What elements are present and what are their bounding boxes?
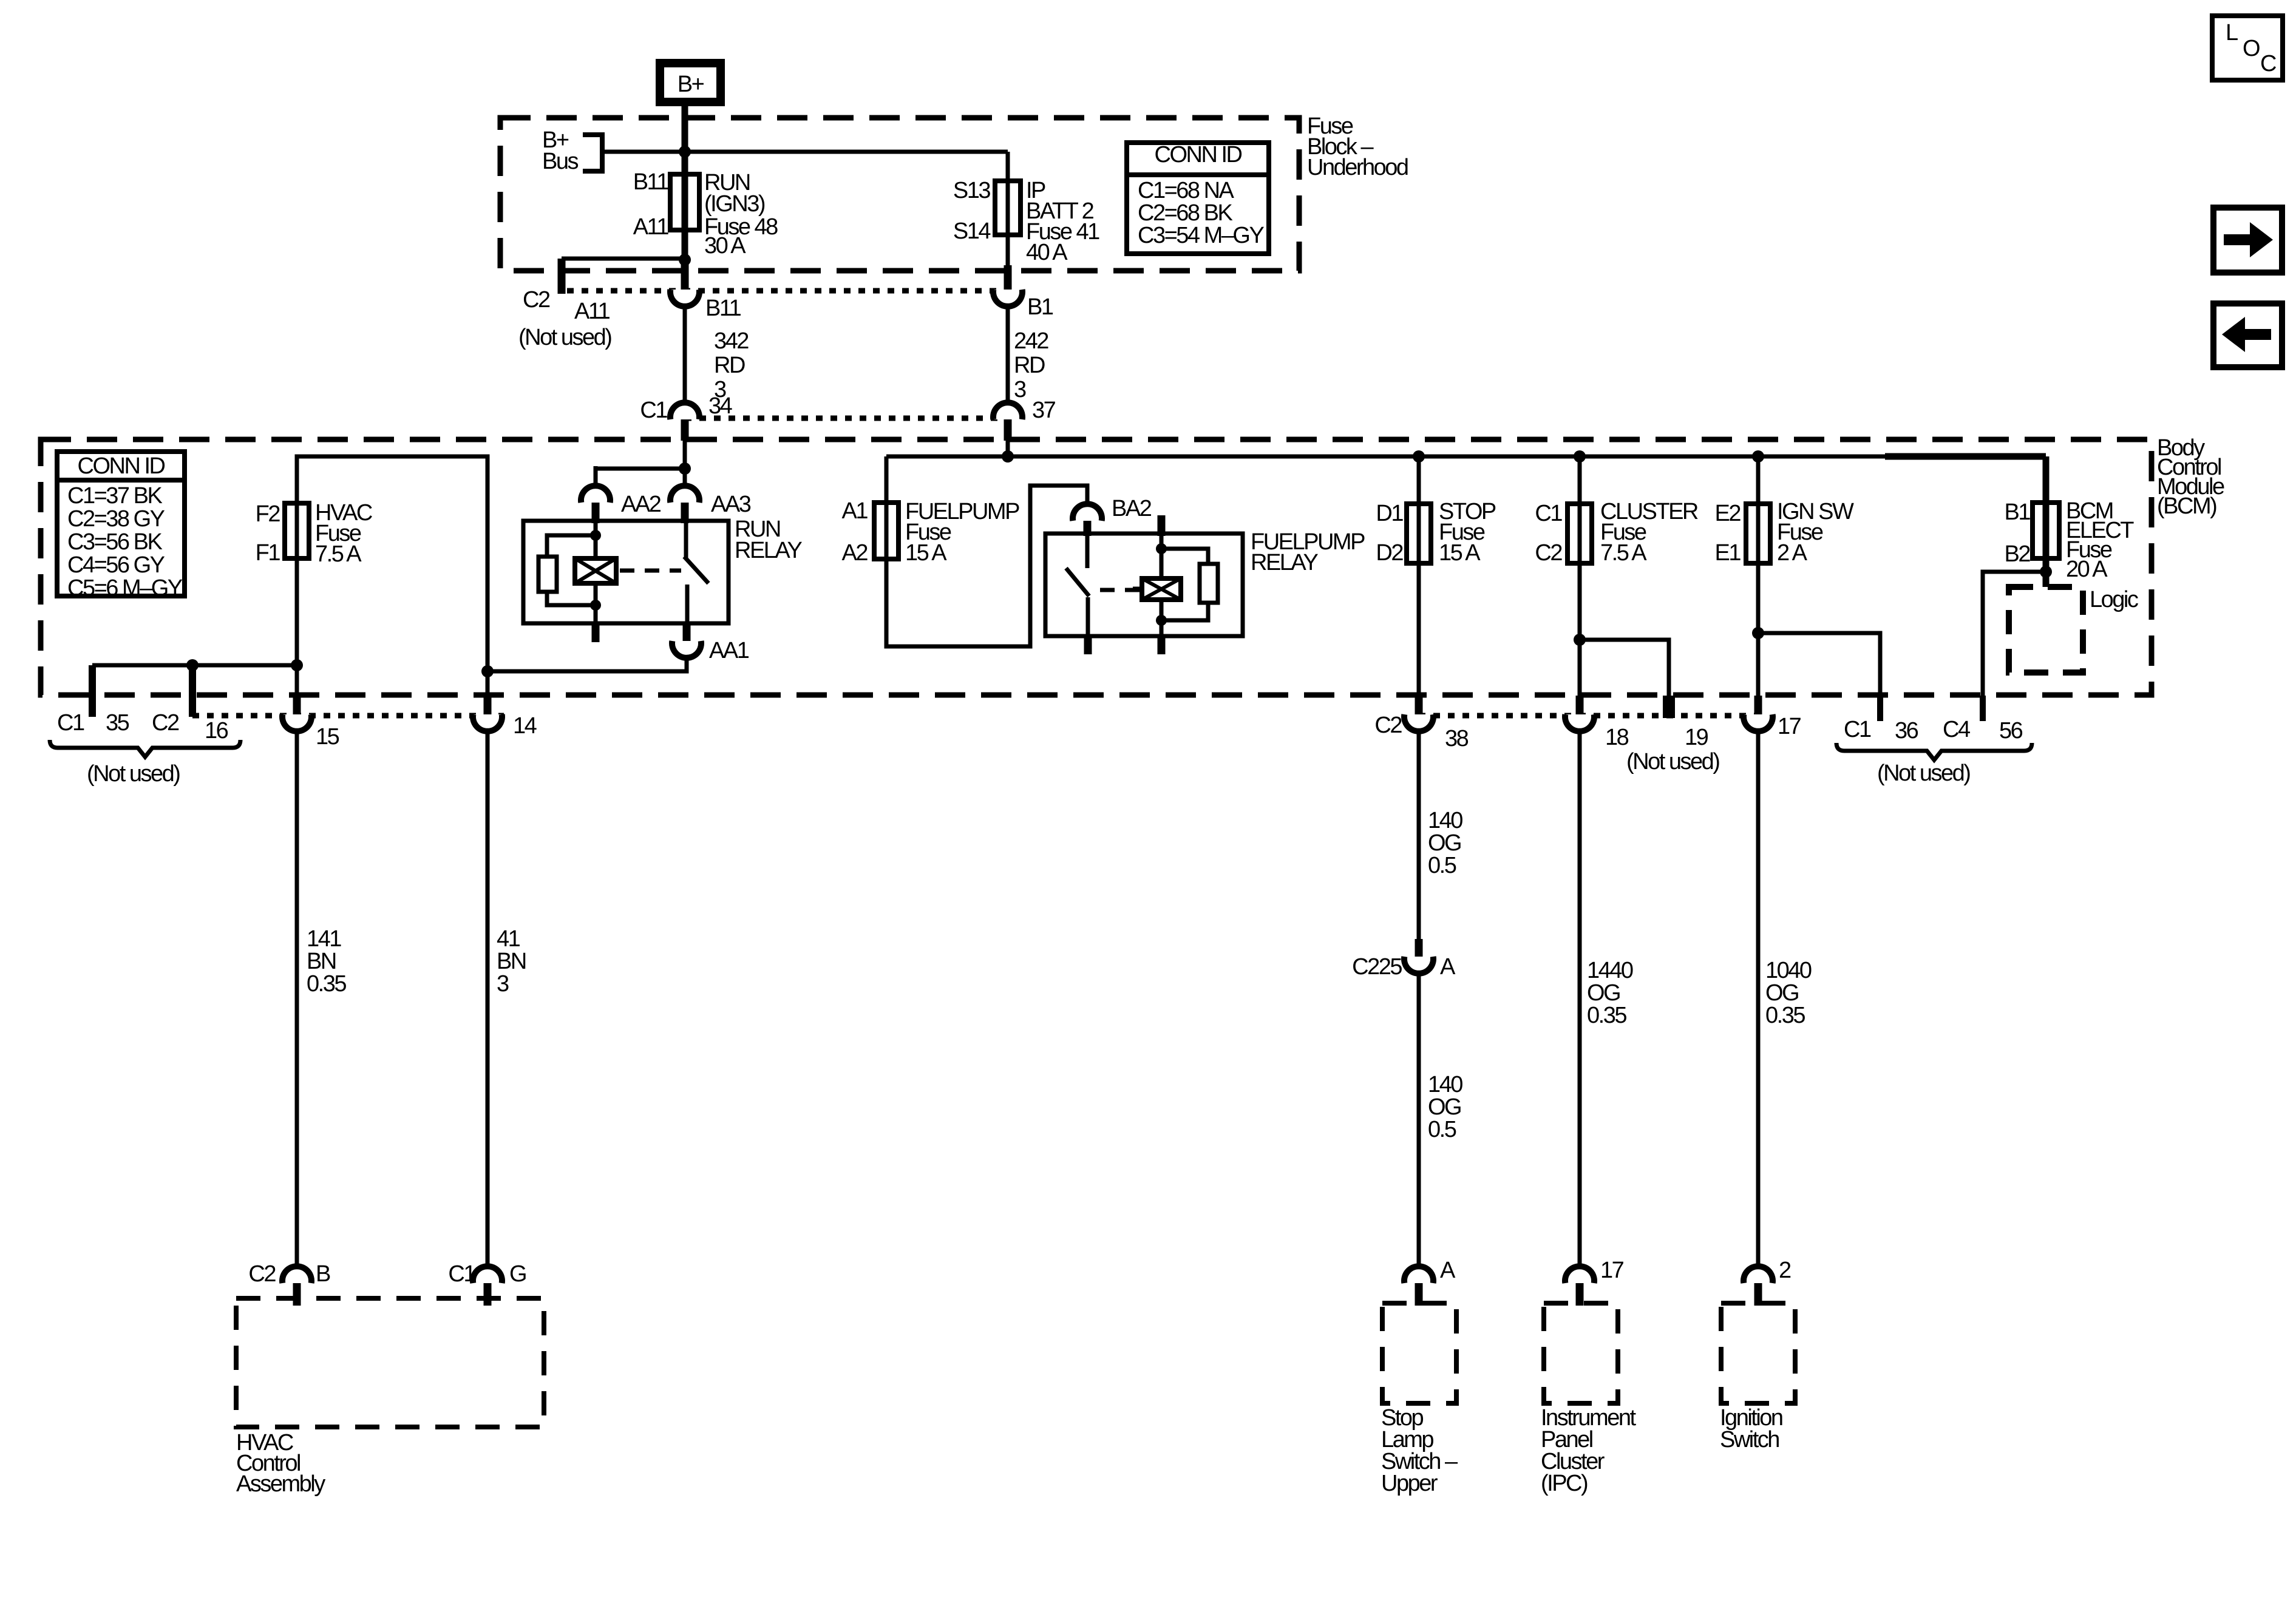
connector line BCM bottom right — [1419, 713, 1758, 719]
fuse F48 RUN IGN3 30A — [670, 174, 699, 230]
svg-text:37: 37 — [1032, 398, 1056, 423]
svg-text:2: 2 — [1779, 1258, 1791, 1283]
connector B11 to BCM — [681, 259, 689, 291]
connector pin A stop lamp switch — [1404, 1266, 1433, 1283]
svg-text:0.35: 0.35 — [1765, 1003, 1805, 1028]
brace not used pins right — [1836, 743, 2032, 760]
fuelpump relay switch — [1085, 534, 1090, 568]
connector C2 pin 38 — [1415, 696, 1423, 716]
connector pin 17 — [1754, 696, 1762, 716]
svg-text:RELAY: RELAY — [1251, 550, 1318, 575]
wire to unused pins C1-35 C2-16 — [92, 663, 297, 668]
node HVAC fuse to unused pins — [291, 659, 303, 671]
svg-text:0.5: 0.5 — [1428, 1117, 1456, 1142]
svg-text:OG: OG — [1587, 980, 1620, 1006]
svg-text:C2=38 GY: C2=38 GY — [67, 506, 165, 532]
svg-text:1040: 1040 — [1765, 958, 1812, 983]
brace not used pins left — [50, 740, 240, 757]
svg-text:38: 38 — [1445, 726, 1469, 751]
wire 242 RD 3 — [1006, 305, 1010, 404]
svg-text:A1: A1 — [842, 498, 868, 524]
wire fuelpump fuse to BA2 — [886, 486, 1087, 646]
svg-text:E1: E1 — [1715, 540, 1741, 566]
svg-text:40 A: 40 A — [1026, 240, 1068, 265]
svg-text:D2: D2 — [1376, 540, 1403, 566]
svg-text:C: C — [2260, 51, 2276, 76]
node bus junction stop — [1413, 450, 1425, 463]
arrow previous page — [2213, 303, 2282, 367]
svg-text:CONN ID: CONN ID — [1155, 142, 1242, 168]
fuse HVAC 7.5A — [295, 503, 299, 696]
connector pin 18 — [1576, 696, 1584, 716]
svg-text:36: 36 — [1895, 718, 1918, 744]
svg-text:B1: B1 — [1027, 294, 1053, 320]
table CONN ID fuse block — [1127, 143, 1269, 254]
connector C1 pin 34 — [670, 402, 699, 419]
svg-text:C3=56 BK: C3=56 BK — [67, 529, 162, 555]
svg-text:RD: RD — [714, 353, 745, 378]
connector pin 14 — [484, 696, 492, 716]
wire to pin 19 not used — [1580, 640, 1669, 696]
connector B1 to BCM — [1004, 265, 1012, 291]
svg-text:E2: E2 — [1715, 501, 1741, 526]
svg-text:2 A: 2 A — [1777, 540, 1808, 566]
svg-text:A2: A2 — [842, 540, 868, 566]
svg-text:BN: BN — [497, 949, 526, 974]
svg-text:C4=56 GY: C4=56 GY — [67, 552, 165, 578]
relay K RUN RELAY box — [523, 521, 729, 623]
wire 140 OG 0.5 upper — [1417, 730, 1421, 941]
wire 41 BN 3 to HVAC control — [486, 730, 490, 1271]
svg-text:Assembly: Assembly — [236, 1471, 325, 1497]
svg-text:A11: A11 — [574, 299, 610, 324]
svg-text:S14: S14 — [953, 219, 991, 244]
svg-text:Switch: Switch — [1720, 1427, 1779, 1452]
run relay coil ground stub — [592, 623, 600, 642]
svg-text:15: 15 — [316, 724, 339, 750]
svg-text:1440: 1440 — [1587, 958, 1633, 983]
fuse STOP 15A — [1417, 456, 1421, 696]
svg-text:20 A: 20 A — [2066, 557, 2108, 582]
svg-text:19: 19 — [1685, 725, 1708, 750]
node bus junction cluster — [1574, 450, 1586, 463]
node BCM elect output — [2040, 566, 2052, 578]
svg-text:A: A — [1440, 954, 1456, 980]
svg-text:0.35: 0.35 — [307, 971, 346, 997]
svg-text:3: 3 — [497, 971, 509, 997]
svg-text:C2: C2 — [1374, 713, 1402, 738]
connector pin 15 — [293, 696, 301, 716]
run relay resistor — [547, 535, 596, 557]
arrow next page — [2213, 208, 2282, 273]
svg-text:15 A: 15 A — [905, 540, 947, 566]
fuelpump relay resistor — [1161, 549, 1208, 564]
svg-text:C4: C4 — [1943, 717, 1971, 742]
svg-text:3: 3 — [1014, 377, 1026, 402]
svg-text:G: G — [509, 1261, 526, 1287]
svg-text:34: 34 — [708, 393, 733, 419]
wire 1040 OG 0.35 — [1756, 730, 1761, 1271]
run relay actuator dashed link — [620, 569, 681, 573]
fuse FUELPUMP 15A — [885, 456, 889, 503]
connector BA2 fuelpump relay pin — [1073, 504, 1102, 521]
svg-text:RD: RD — [1014, 353, 1045, 378]
table CONN ID BCM — [57, 452, 185, 596]
svg-text:0.35: 0.35 — [1587, 1003, 1626, 1028]
svg-text:RELAY: RELAY — [735, 538, 802, 563]
svg-text:OG: OG — [1428, 1094, 1461, 1120]
connector C2 pin B — [282, 1266, 311, 1283]
svg-text:30 A: 30 A — [704, 233, 746, 259]
wire pin34 down to relay junction — [683, 439, 687, 469]
svg-text:B: B — [316, 1261, 330, 1287]
HVAC control assembly box — [236, 1298, 544, 1427]
fuelpump relay coil pin stub — [1158, 515, 1166, 536]
svg-text:18: 18 — [1605, 725, 1629, 750]
svg-text:C1: C1 — [57, 710, 84, 736]
wire 141 BN 0.35 to HVAC control — [295, 730, 299, 1271]
svg-text:C2: C2 — [1535, 540, 1562, 566]
svg-text:A11: A11 — [633, 214, 669, 240]
svg-text:B11: B11 — [633, 169, 669, 195]
svg-text:D1: D1 — [1376, 501, 1403, 526]
wire to pin C4-56 not used — [1983, 572, 2046, 696]
svg-text:56: 56 — [1999, 718, 2023, 744]
svg-text:342: 342 — [714, 328, 749, 354]
connector stub C4 56 not used — [1980, 696, 1986, 721]
svg-text:L: L — [2226, 20, 2238, 46]
svg-text:C3=54 M–GY: C3=54 M–GY — [1138, 223, 1264, 248]
svg-text:C2: C2 — [248, 1261, 276, 1287]
wire 140 OG 0.5 lower — [1417, 974, 1421, 1271]
svg-text:B+: B+ — [678, 72, 704, 97]
run relay coil lower wire — [594, 583, 598, 623]
svg-text:242: 242 — [1014, 328, 1048, 354]
wire B+ bus to IP BATT fuse — [602, 150, 1008, 154]
connector pin 17 instrument cluster — [1565, 1266, 1594, 1283]
svg-text:Logic: Logic — [2090, 587, 2138, 612]
svg-text:(BCM): (BCM) — [2157, 493, 2216, 519]
wire to AA2 — [596, 467, 685, 471]
connector AA2 relay coil pin — [581, 486, 610, 503]
connector pin 37 — [993, 402, 1022, 419]
svg-text:BA2: BA2 — [1112, 496, 1152, 521]
connector stub C1 35 not used — [89, 665, 96, 717]
svg-text:Bus: Bus — [542, 149, 578, 174]
BCM logic dashed box — [2009, 587, 2083, 673]
svg-text:AA1: AA1 — [709, 638, 749, 663]
node C2 16 tap — [186, 659, 199, 671]
svg-text:AA2: AA2 — [621, 492, 661, 517]
svg-text:17: 17 — [1600, 1258, 1624, 1283]
svg-text:S13: S13 — [953, 178, 990, 203]
svg-text:B1: B1 — [2005, 500, 2031, 525]
svg-text:Upper: Upper — [1381, 1471, 1438, 1496]
run relay switch — [684, 521, 688, 558]
wire branch below RUN fuse — [562, 257, 685, 261]
svg-text:C1: C1 — [1844, 717, 1871, 742]
svg-text:17: 17 — [1778, 714, 1801, 739]
svg-text:35: 35 — [106, 710, 129, 736]
svg-text:7.5 A: 7.5 A — [315, 541, 362, 567]
wire B+ down to RUN fuse — [682, 106, 688, 261]
fuelpump relay coil lower wire — [1160, 600, 1164, 636]
instrument panel cluster box — [1544, 1303, 1618, 1403]
node ign sw unused tap — [1752, 627, 1764, 639]
node bus junction ign sw — [1752, 450, 1764, 463]
battery feed B+ symbol — [660, 63, 721, 102]
fuelpump relay coil wire — [1160, 534, 1164, 581]
svg-text:C1: C1 — [640, 398, 667, 423]
fuelpump relay actuator dashed link — [1100, 588, 1140, 592]
svg-text:15 A: 15 A — [1439, 540, 1481, 566]
svg-text:AA3: AA3 — [711, 492, 751, 517]
svg-text:B11: B11 — [705, 296, 741, 321]
run relay coil element — [575, 558, 616, 583]
connector AA1 relay output — [683, 623, 691, 641]
wire AA1 to HVAC feed rail — [487, 656, 687, 671]
svg-text:OG: OG — [1428, 830, 1461, 856]
svg-text:C1: C1 — [1535, 501, 1562, 526]
svg-text:41: 41 — [497, 926, 520, 952]
fuse BCM ELECT 20A — [1885, 453, 2046, 460]
fuelpump relay coil element — [1142, 578, 1181, 600]
wire HVAC feed rail — [297, 456, 487, 696]
connector line BCM bottom left — [192, 713, 504, 719]
run relay coil wire — [594, 521, 598, 561]
connector stub C1 36 not used — [1877, 696, 1883, 721]
wire main BCM voltage bus — [1006, 439, 1010, 456]
svg-text:F1: F1 — [256, 540, 280, 566]
svg-text:C2: C2 — [152, 710, 179, 736]
connector stub 19 not used — [1663, 696, 1675, 718]
node B+ bus junction — [679, 146, 691, 158]
connector AA3 relay switch pin — [683, 469, 687, 488]
svg-text:B2: B2 — [2005, 541, 2031, 567]
svg-text:(IPC): (IPC) — [1541, 1471, 1588, 1496]
connector stub C2 A11 not used — [558, 259, 566, 294]
relay K FUELPUMP RELAY box — [1045, 534, 1243, 636]
svg-text:14: 14 — [513, 713, 537, 739]
svg-text:C1=37 BK: C1=37 BK — [67, 483, 162, 509]
svg-text:C2=68 BK: C2=68 BK — [1138, 200, 1232, 226]
connector C225 pin A — [1415, 939, 1423, 958]
svg-text:(Not used): (Not used) — [518, 325, 611, 350]
svg-text:140: 140 — [1428, 1072, 1462, 1097]
svg-text:(Not used): (Not used) — [1626, 749, 1719, 774]
node cluster unused tap — [1574, 634, 1586, 646]
svg-text:140: 140 — [1428, 808, 1462, 833]
svg-text:16: 16 — [205, 718, 228, 744]
ignition switch box — [1721, 1303, 1795, 1403]
svg-text:C1=68 NA: C1=68 NA — [1138, 178, 1235, 203]
svg-text:BN: BN — [307, 949, 336, 974]
svg-text:0.5: 0.5 — [1428, 853, 1456, 878]
svg-text:CONN ID: CONN ID — [78, 453, 165, 479]
connector pin 2 ignition switch — [1744, 1266, 1773, 1283]
wire 1440 OG 0.35 — [1578, 730, 1582, 1271]
fuse block underhood dashed border — [500, 118, 1299, 271]
svg-text:(Not used): (Not used) — [87, 761, 180, 787]
svg-text:C5=6 M–GY: C5=6 M–GY — [67, 575, 183, 601]
fuse F41 IP BATT 2 40A — [1006, 181, 1010, 271]
node RUN fuse output — [679, 254, 691, 266]
body control module BCM dashed border — [41, 439, 2152, 695]
svg-text:F2: F2 — [256, 501, 280, 527]
svg-text:OG: OG — [1765, 980, 1798, 1006]
svg-text:(Not used): (Not used) — [1877, 761, 1970, 786]
svg-text:7.5 A: 7.5 A — [1600, 540, 1647, 566]
svg-text:C225: C225 — [1352, 954, 1402, 980]
legend LOC box — [2212, 16, 2283, 80]
connector stub C2 16 not used — [189, 665, 196, 717]
fuse CLUSTER 7.5A — [1578, 456, 1582, 696]
svg-text:141: 141 — [307, 926, 341, 952]
svg-text:C2: C2 — [523, 287, 550, 313]
fuse IGN SW 2A — [1756, 456, 1761, 696]
node HVAC feed junction — [481, 665, 494, 677]
stop lamp switch box — [1382, 1303, 1456, 1403]
svg-text:Underhood: Underhood — [1307, 155, 1408, 180]
svg-text:C1: C1 — [448, 1261, 475, 1287]
wire to pin C1-36 not used — [1758, 633, 1880, 696]
connector line BCM top — [685, 416, 1008, 421]
node run relay feed split — [679, 463, 691, 475]
connector C1 pin G — [473, 1266, 502, 1283]
svg-text:O: O — [2243, 36, 2260, 61]
svg-text:(IGN3): (IGN3) — [704, 191, 765, 217]
connector line fuse block bottom — [567, 288, 1008, 294]
svg-text:A: A — [1440, 1258, 1456, 1283]
wire 342 RD 3 — [683, 305, 687, 404]
node bus junction 37 — [1002, 450, 1014, 463]
